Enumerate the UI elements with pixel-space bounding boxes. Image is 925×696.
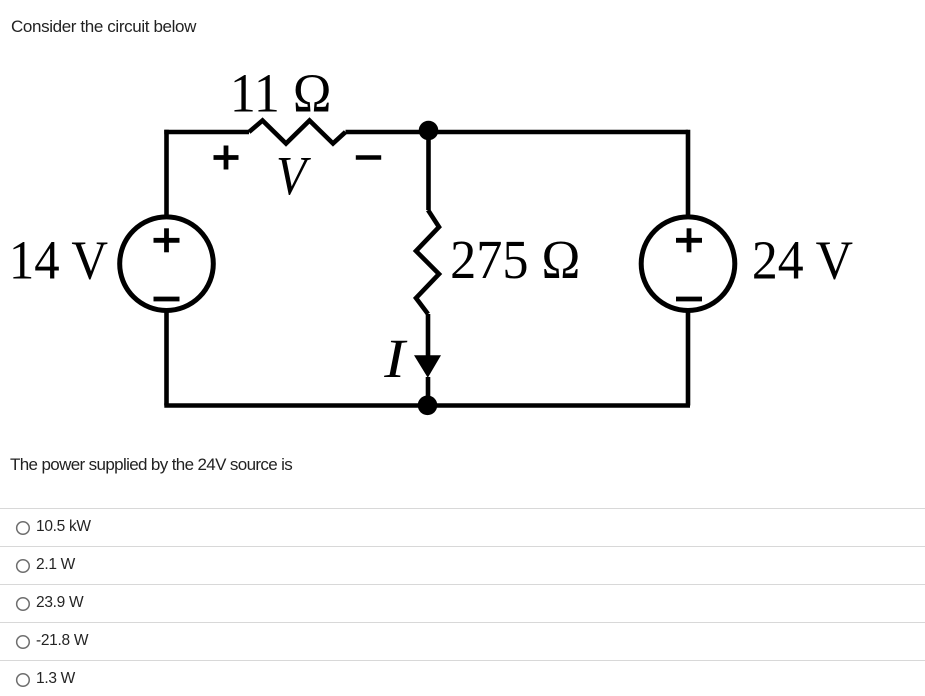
label: plus sign of V across R1 [214,146,239,170]
radio button option 3 [17,598,30,611]
V1 plus sign [154,228,180,252]
svg-text:275 Ω: 275 Ω [450,229,580,290]
wire: middle branch lower to arrow [426,314,431,360]
current arrow I head [414,355,441,378]
V2 plus sign [676,228,702,252]
wire: bottom horizontal [164,403,690,408]
answer separators [0,508,925,509]
voltage source V1 14V circle [120,217,214,311]
wire: right vertical lower segment [686,311,691,406]
wire: below arrow to bottom node [426,377,431,406]
wire: right vertical upper segment [686,130,691,217]
svg-text:24 V: 24 V [752,230,853,291]
radio button option 4 [17,636,30,649]
question text top [11,17,196,37]
svg-text:V: V [276,145,311,206]
answer option 5 [36,670,75,688]
wire: top-left horizontal from left corner to resistor R1 [164,130,249,135]
radio button option 2 [17,560,30,573]
label: minus sign of V across R1 [356,155,381,160]
svg-text:I: I [383,328,408,389]
answer option 2 [36,556,75,574]
question text bottom [10,455,292,475]
answer option 4 [36,632,88,650]
resistor R2 275-ohm vertical zigzag [416,210,439,314]
voltage source V2 24V circle [641,217,735,311]
answer option 3 [36,594,83,612]
answer option 1 [36,518,91,536]
wire: left vertical lower segment [164,312,169,406]
wire: left vertical upper segment [164,130,169,216]
svg-text:14 V: 14 V [9,230,108,291]
radio button option 5 [17,674,30,687]
node B bottom junction dot [418,396,438,416]
V1 minus sign [154,297,180,302]
resistor R1 11-ohm zigzag [249,121,346,144]
wire: top horizontal from resistor to right corner [346,130,689,135]
radio button option 1 [17,522,30,535]
svg-text:11 Ω: 11 Ω [230,63,332,124]
V2 minus sign [676,297,702,302]
node A top junction dot [419,121,439,141]
wire: middle branch upper [426,132,431,210]
